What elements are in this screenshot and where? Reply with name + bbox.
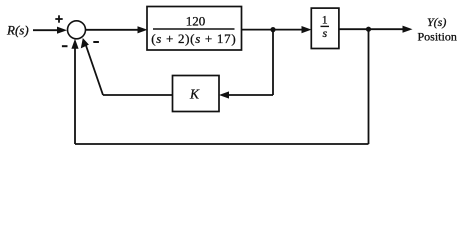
wire: R(s) input to summing junction [33, 29, 60, 31]
wire: integrator to output Y(s) [339, 28, 405, 30]
wire: output tap down right side [368, 29, 370, 144]
svg-text:(s + 2)(s + 17): (s + 2)(s + 17) [151, 31, 236, 46]
node: inner feedback tap junction dot [270, 27, 275, 32]
arrowhead into integrator [302, 26, 312, 33]
svg-text:120: 120 [186, 13, 206, 28]
integrator block 1/s [311, 8, 339, 48]
node: output tap junction dot [366, 27, 371, 32]
plus sign at summing junction [55, 15, 62, 22]
minus sign (outer feedback) [62, 45, 68, 47]
arrowhead into summing junction [57, 27, 67, 34]
wire: K block output leftward [103, 94, 173, 96]
svg-text:R(s): R(s) [6, 23, 29, 38]
wire: block G to integrator [242, 29, 305, 31]
wire: bottom outer feedback run [75, 143, 369, 145]
arrowhead into block G [138, 26, 148, 33]
svg-text:Position: Position [418, 30, 457, 44]
arrowhead of outer feedback into summing junction [71, 39, 78, 49]
arrowhead of diagonal into summing junction [81, 38, 89, 48]
wire: inner feedback tap drop [272, 30, 274, 95]
svg-text:s: s [322, 26, 327, 40]
arrowhead into K block [219, 91, 229, 98]
svg-text:Y(s): Y(s) [427, 15, 446, 29]
minus sign (inner feedback) [93, 41, 99, 43]
wire: tap to K block input [227, 94, 273, 96]
block G: 120/((s+2)(s+17)) [147, 7, 242, 51]
svg-text:K: K [189, 86, 200, 101]
block K [173, 76, 220, 112]
wire: diagonal from K output up to summing junction [86, 45, 103, 95]
wire: summing junction to block G [86, 29, 141, 31]
summing junction circle [68, 21, 86, 39]
svg-text:1: 1 [322, 15, 328, 27]
arrowhead at output Y(s) [403, 26, 413, 33]
wire: outer feedback up to summing junction [74, 46, 76, 144]
